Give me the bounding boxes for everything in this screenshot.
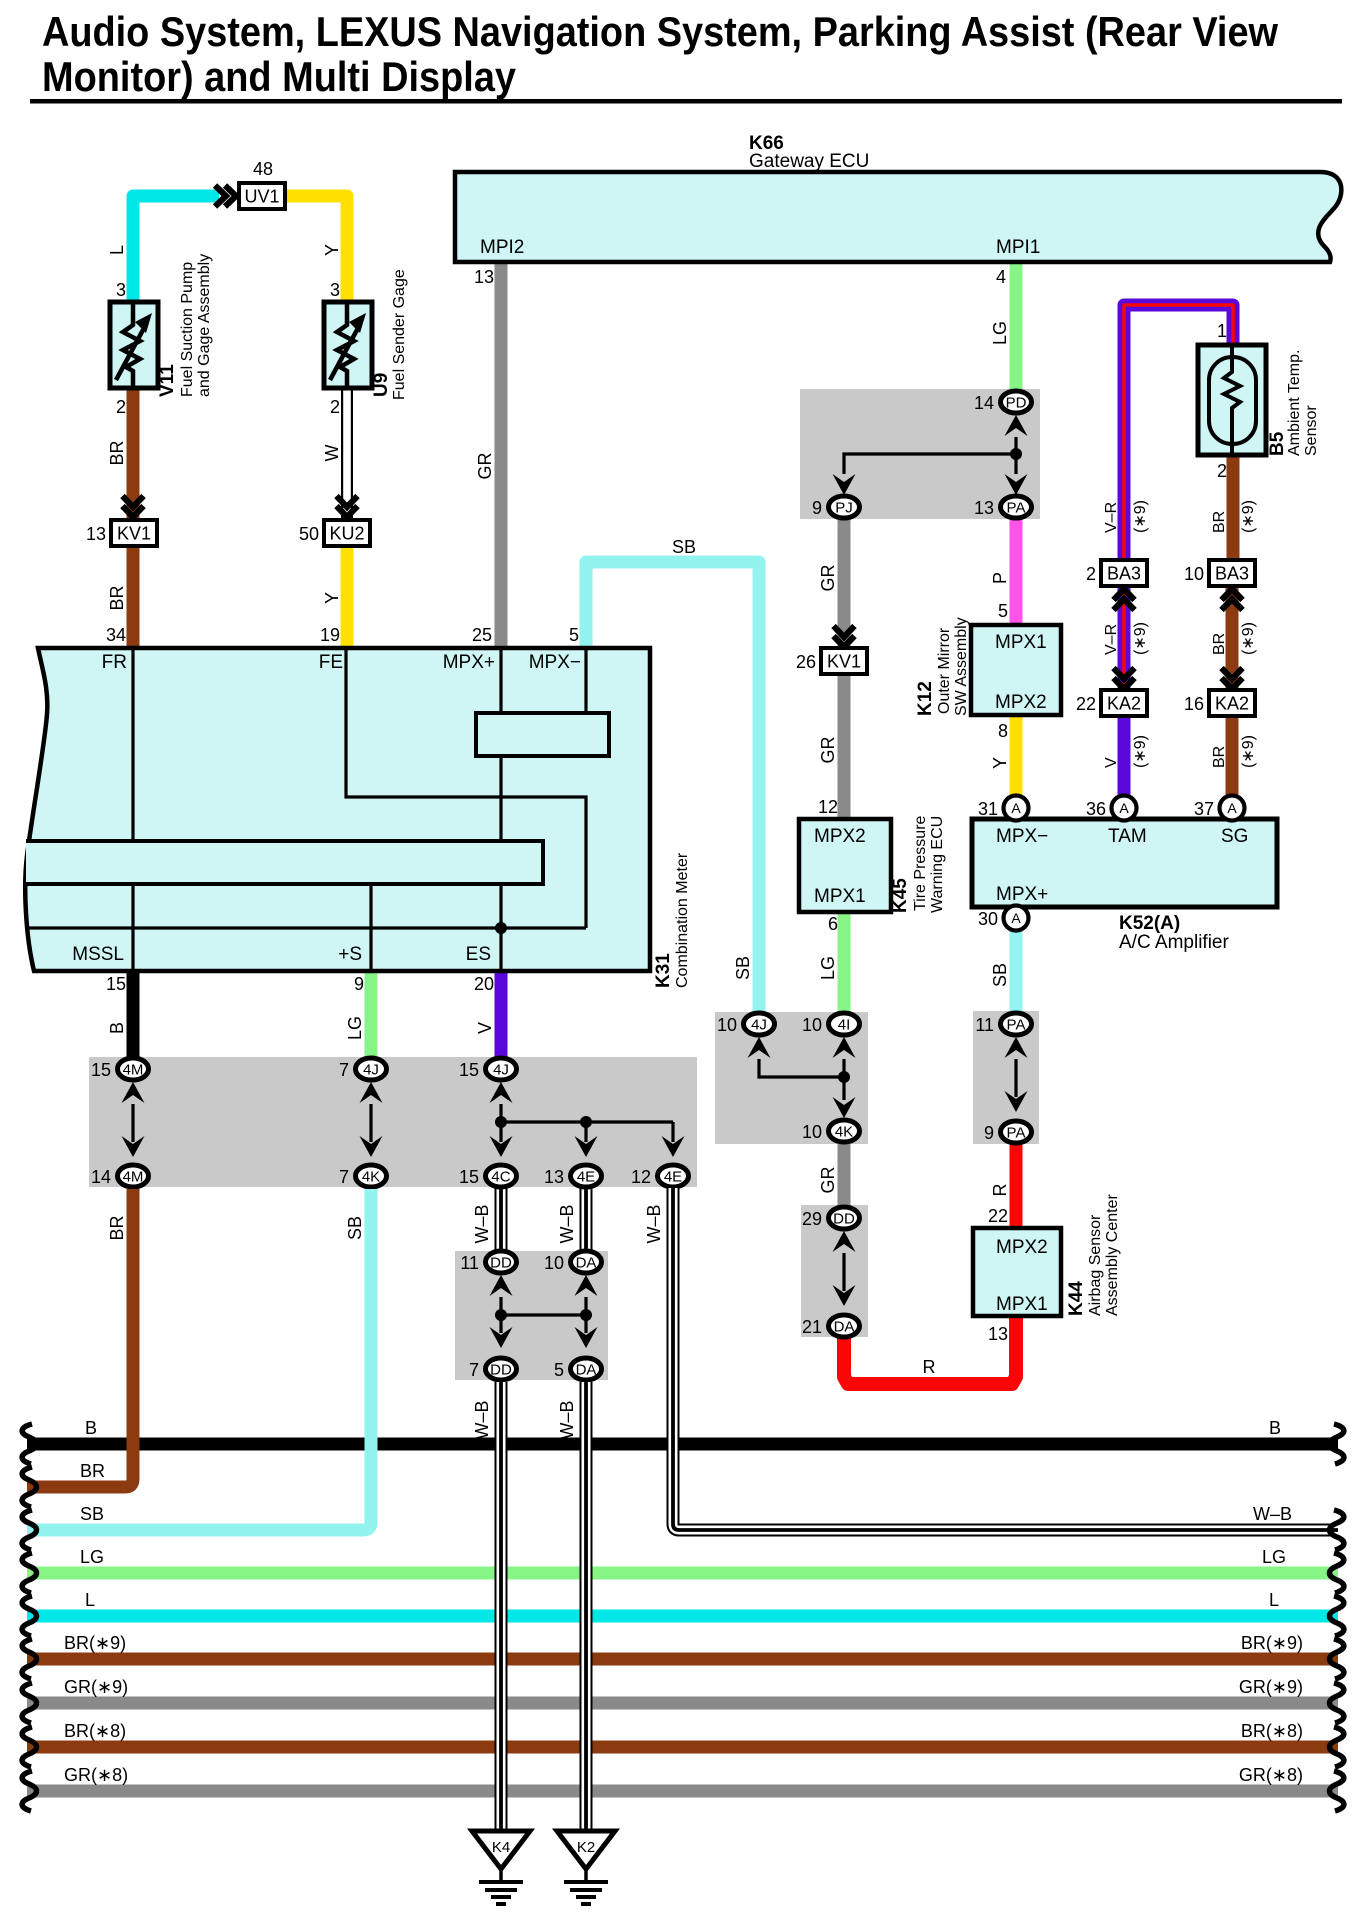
svg-text:Monitor) and Multi Display: Monitor) and Multi Display (42, 53, 517, 100)
connector 4K pin10 (829, 1120, 860, 1142)
svg-text:Tire Pressure: Tire Pressure (912, 815, 929, 911)
wire LG (K66 MPI1-4 to PD-14) (1010, 262, 1023, 391)
connector DD pin29 (829, 1207, 860, 1229)
svg-text:(∗9): (∗9) (1132, 500, 1149, 533)
connector DA pin5 (571, 1358, 602, 1380)
ground K2 (557, 1831, 615, 1869)
svg-text:9: 9 (812, 498, 822, 518)
svg-text:6: 6 (828, 914, 838, 934)
svg-text:4E: 4E (577, 1169, 595, 1186)
svg-text:GR(∗8): GR(∗8) (1239, 1765, 1303, 1785)
arrow into PA-9 (1005, 1091, 1028, 1112)
K31 internal FR-MSSL line (131, 648, 134, 971)
bus break left LG (22, 1553, 36, 1593)
svg-text:SB: SB (990, 963, 1010, 987)
svg-text:(∗9): (∗9) (1240, 622, 1257, 655)
svg-text:10: 10 (1184, 564, 1204, 584)
wire W-B (DA-5 to ground K2) (580, 1382, 593, 1831)
svg-text:4J: 4J (363, 1062, 379, 1079)
svg-text:(∗9): (∗9) (1132, 735, 1149, 768)
svg-text:GR(∗9): GR(∗9) (1239, 1677, 1303, 1697)
connector area 4J/4I/4K right (715, 1012, 868, 1144)
svg-text:15: 15 (459, 1167, 479, 1187)
connector 4J pin10 (744, 1013, 775, 1035)
svg-text:13: 13 (974, 498, 994, 518)
connector A pin31 (1004, 796, 1029, 821)
svg-text:Sensor: Sensor (1303, 405, 1320, 456)
svg-text:10: 10 (802, 1122, 822, 1142)
svg-text:36: 36 (1086, 799, 1106, 819)
svg-text:13: 13 (544, 1167, 564, 1187)
wire W-B (4C-15 to DD-11) (495, 1188, 508, 1251)
connector 4K pin7 (356, 1165, 387, 1187)
svg-text:BR: BR (107, 585, 127, 610)
arrow into 4I-10 (833, 1037, 856, 1058)
svg-text:15: 15 (106, 974, 126, 994)
fuel sender gage U9 (324, 302, 372, 388)
svg-text:GR: GR (818, 564, 838, 591)
svg-text:BR(∗9): BR(∗9) (1241, 1633, 1303, 1653)
connector area DD/DA right (801, 1205, 868, 1337)
arrow into 4E-13 (575, 1136, 598, 1157)
svg-text:20: 20 (474, 974, 494, 994)
bus L (27, 1610, 1338, 1623)
bus GR(*9) (27, 1697, 1338, 1710)
svg-text:SB: SB (345, 1216, 365, 1240)
svg-text:Fuel Suction Pump: Fuel Suction Pump (179, 262, 196, 397)
bus break right GR(*9) (1330, 1683, 1344, 1723)
svg-text:SG: SG (1221, 826, 1248, 847)
svg-text:34: 34 (106, 625, 126, 645)
svg-text:A/C Amplifier: A/C Amplifier (1119, 932, 1229, 953)
wire GR (K66 MPI2-13 to K31 MPX+ 25) (495, 262, 508, 648)
svg-text:4I: 4I (838, 1017, 851, 1034)
bus break right L (1330, 1596, 1344, 1636)
svg-text:BR: BR (1211, 746, 1228, 768)
connector PA pin13 (1001, 496, 1032, 518)
svg-text:P: P (990, 572, 1010, 584)
tire pressure ECU K45 box (799, 819, 891, 912)
svg-text:1: 1 (1217, 321, 1227, 341)
arrow into DA-21 (833, 1285, 856, 1306)
svg-text:22: 22 (1076, 694, 1096, 714)
B5 thermistor capsule (1209, 357, 1256, 444)
svg-text:2: 2 (1217, 461, 1227, 481)
svg-text:29: 29 (802, 1209, 822, 1229)
bus B (27, 1438, 1338, 1451)
svg-text:MPI1: MPI1 (996, 237, 1040, 258)
svg-text:Fuel Sender Gage: Fuel Sender Gage (391, 269, 408, 400)
bus break left SB (22, 1510, 36, 1550)
wire R (K44 MPX1-13 to DA-21) (844, 1316, 1016, 1384)
connector A pin30 (1004, 906, 1029, 931)
svg-text:Outer Mirror: Outer Mirror (936, 627, 953, 714)
svg-text:LG: LG (80, 1547, 104, 1567)
svg-text:K2: K2 (577, 1839, 595, 1856)
arrow into DD-29 (833, 1231, 856, 1252)
svg-text:Assembly Center: Assembly Center (1104, 1194, 1121, 1316)
svg-text:Combination Meter: Combination Meter (674, 852, 691, 988)
outer mirror SW K12 box (971, 625, 1061, 715)
svg-text:PD: PD (1006, 395, 1027, 412)
svg-text:10: 10 (717, 1015, 737, 1035)
svg-text:KU2: KU2 (329, 524, 364, 544)
svg-text:KV1: KV1 (117, 524, 151, 544)
svg-text:PJ: PJ (835, 500, 853, 517)
bus break left L (22, 1596, 36, 1636)
arrow into 4J-7 (360, 1082, 383, 1103)
svg-text:BA3: BA3 (1107, 564, 1141, 584)
svg-text:V–R: V–R (1103, 502, 1120, 533)
bus LG (27, 1567, 1338, 1580)
svg-text:30: 30 (978, 909, 998, 929)
svg-text:SB: SB (80, 1504, 104, 1524)
arrow into 4M-15 (122, 1082, 145, 1103)
gateway ECU K66 box (455, 172, 1341, 262)
junction 4J15/4C (495, 1116, 507, 1128)
svg-text:Airbag Sensor: Airbag Sensor (1087, 1214, 1104, 1316)
svg-text:B: B (107, 1022, 127, 1034)
svg-text:2: 2 (116, 397, 126, 417)
svg-text:GR: GR (475, 452, 495, 479)
arrow into PA-13 (1005, 474, 1028, 495)
svg-text:KA2: KA2 (1215, 694, 1249, 714)
svg-text:PA: PA (1007, 1125, 1026, 1142)
chevron into UV1 (215, 186, 236, 207)
svg-text:14: 14 (974, 393, 994, 413)
svg-text:MPX−: MPX− (529, 652, 581, 673)
connector DA pin10 (571, 1251, 602, 1273)
bus BR(*9) (27, 1653, 1338, 1666)
chevron into KV1-26 (834, 626, 855, 647)
svg-text:9: 9 (984, 1123, 994, 1143)
svg-text:BR: BR (107, 440, 127, 465)
chevron into KA2-22 (1114, 668, 1135, 689)
svg-text:L: L (1269, 1590, 1279, 1610)
svg-text:25: 25 (472, 625, 492, 645)
fuel suction pump V11 (110, 302, 158, 388)
svg-text:BR(∗8): BR(∗8) (1241, 1721, 1303, 1741)
svg-text:DD: DD (833, 1211, 855, 1228)
arrow into DA-5 (575, 1327, 598, 1348)
arrow into 4M-14 (122, 1136, 145, 1157)
combination meter K31 box (25, 648, 650, 971)
svg-text:PA: PA (1007, 500, 1026, 517)
svg-text:+S: +S (338, 944, 362, 965)
svg-text:A: A (1011, 800, 1021, 816)
bus break left BR(*8) (22, 1727, 36, 1767)
svg-text:MPX2: MPX2 (814, 826, 866, 847)
chevron into BA3-2 (1114, 589, 1135, 610)
wire V-R (BA3-2 to KA2-22) (1118, 586, 1131, 690)
connector 4J pin15 (486, 1058, 517, 1080)
wire Y (K12 MPX2-8 to K52 A-31) (1010, 715, 1023, 797)
svg-text:MPI2: MPI2 (480, 237, 524, 258)
svg-text:DA: DA (834, 1319, 855, 1336)
wire GR (PJ-9 to KV1-26) (838, 518, 851, 648)
connector A pin36 (1112, 796, 1137, 821)
svg-text:Gateway ECU: Gateway ECU (749, 151, 869, 172)
connector KU2 pin50 (324, 520, 370, 546)
svg-text:TAM: TAM (1108, 826, 1147, 847)
connector 4J pin7 (356, 1058, 387, 1080)
svg-text:LG: LG (345, 1016, 365, 1040)
svg-text:31: 31 (978, 799, 998, 819)
svg-text:7: 7 (339, 1060, 349, 1080)
svg-text:13: 13 (86, 524, 106, 544)
svg-text:5: 5 (554, 1360, 564, 1380)
connector DD pin11 (486, 1251, 517, 1273)
connector DD pin7 (486, 1358, 517, 1380)
svg-text:ES: ES (466, 944, 491, 965)
connector area PA/PA (973, 1011, 1039, 1144)
svg-text:B: B (85, 1418, 97, 1438)
svg-text:37: 37 (1194, 799, 1214, 819)
svg-text:4K: 4K (362, 1169, 380, 1186)
svg-text:DA: DA (576, 1362, 597, 1379)
wire P (PA-13 to K12 MPX1-5) (1010, 518, 1023, 625)
svg-text:19: 19 (320, 625, 340, 645)
svg-text:KV1: KV1 (827, 652, 861, 672)
svg-text:DD: DD (490, 1255, 512, 1272)
connector area 4M/4J/4K/4C/4E (89, 1057, 697, 1187)
connector KV1 pin13 (111, 520, 157, 546)
svg-text:BR(∗9): BR(∗9) (64, 1633, 126, 1653)
ambient temp sensor B5 box (1198, 345, 1266, 455)
arrow into PJ (833, 474, 856, 495)
svg-text:LG: LG (818, 956, 838, 980)
wire BR (KA2-16 to K52 A-37) (1226, 716, 1239, 797)
svg-text:5: 5 (569, 625, 579, 645)
svg-text:16: 16 (1184, 694, 1204, 714)
svg-text:K52(A): K52(A) (1119, 913, 1180, 934)
K31 internal ES horizontal line (27, 926, 586, 929)
svg-text:LG: LG (1262, 1547, 1286, 1567)
svg-text:MPX1: MPX1 (996, 1294, 1048, 1315)
K31 internal bus bar (26, 841, 543, 884)
svg-text:7: 7 (339, 1167, 349, 1187)
svg-text:V11: V11 (157, 364, 178, 397)
svg-text:13: 13 (474, 267, 494, 287)
svg-text:12: 12 (631, 1167, 651, 1187)
junction (PD/PA) (1010, 448, 1022, 460)
svg-text:SB: SB (672, 537, 696, 557)
wire GR (4K-10 to DD-29) (838, 1144, 851, 1207)
wire LG (K31 +S-9 to 4J-7) (365, 971, 378, 1058)
connector 4E pin13 (571, 1165, 602, 1187)
svg-text:A: A (1227, 800, 1237, 816)
chevron into KV1-13 (123, 496, 144, 517)
svg-text:10: 10 (802, 1015, 822, 1035)
svg-text:21: 21 (802, 1317, 822, 1337)
arrow into 4E-12 (662, 1136, 685, 1157)
svg-text:14: 14 (91, 1167, 111, 1187)
svg-text:A: A (1011, 910, 1021, 926)
svg-text:GR(∗9): GR(∗9) (64, 1677, 128, 1697)
wire BR (V11 pin2 to KV1) (127, 388, 140, 518)
K31 internal MPX- line (584, 648, 587, 713)
svg-text:R: R (990, 1184, 1010, 1197)
chevron into KU2-50 (337, 496, 358, 517)
svg-text:GR: GR (818, 1166, 838, 1193)
wire BR (B5 pin2 to BA3-10) (1227, 455, 1240, 560)
wire V-R (B5 pin1 to BA3-2) (1124, 305, 1233, 560)
svg-text:MPX2: MPX2 (996, 1237, 1048, 1258)
svg-text:U9: U9 (371, 373, 392, 397)
svg-text:LG: LG (990, 321, 1010, 345)
svg-text:Y: Y (322, 592, 342, 604)
svg-text:2: 2 (330, 397, 340, 417)
junction 4E13 (580, 1116, 592, 1128)
svg-text:MPX−: MPX− (996, 826, 1048, 847)
svg-text:MSSL: MSSL (72, 944, 124, 965)
svg-text:MPX+: MPX+ (443, 652, 495, 673)
connector 4C pin15 (486, 1165, 517, 1187)
wire BR (BA3-10 to KA2-16) (1226, 586, 1239, 690)
svg-text:B5: B5 (1267, 431, 1288, 456)
svg-text:V–R: V–R (1103, 624, 1120, 655)
svg-text:MPX1: MPX1 (814, 886, 866, 907)
junction DD (495, 1309, 507, 1321)
svg-text:3: 3 (116, 280, 126, 300)
connector 4M pin14 (118, 1165, 149, 1187)
connector area DD/DA left (455, 1251, 608, 1380)
svg-text:(∗9): (∗9) (1240, 500, 1257, 533)
svg-text:11: 11 (975, 1015, 994, 1035)
svg-text:10: 10 (544, 1253, 564, 1273)
wire SB (K52 A-30 to PA-11) (1010, 930, 1023, 1013)
wire SB (K31 MPX- 5 to 4J-10) (586, 562, 759, 1013)
wire PD-PJ branch (844, 454, 1016, 474)
svg-text:K12: K12 (915, 681, 936, 716)
svg-text:BR: BR (107, 1215, 127, 1240)
svg-text:3: 3 (330, 280, 340, 300)
arrow into PD (1005, 415, 1028, 436)
wire R (PA-9 to K44 MPX2-22) (1010, 1144, 1023, 1228)
svg-text:4M: 4M (123, 1169, 144, 1186)
svg-text:9: 9 (354, 974, 364, 994)
bus break right BR(*9) (1330, 1639, 1344, 1679)
connector 4M pin15 (118, 1058, 149, 1080)
svg-text:GR: GR (818, 736, 838, 763)
connector UV1 (239, 183, 285, 209)
connector PD pin14 (1001, 391, 1032, 413)
wire Y (UV1 to U9 pin3) (285, 196, 347, 303)
bus break left GR(*8) (22, 1771, 36, 1811)
svg-text:R: R (923, 1357, 936, 1377)
svg-text:KA2: KA2 (1107, 694, 1141, 714)
svg-text:4C: 4C (491, 1169, 510, 1186)
bus break right GR(*8) (1330, 1771, 1344, 1811)
svg-text:4K: 4K (835, 1124, 853, 1141)
svg-text:4J: 4J (751, 1017, 767, 1034)
bus break left BR(*9) (22, 1639, 36, 1679)
svg-text:W–B: W–B (472, 1204, 492, 1243)
svg-text:4: 4 (996, 267, 1006, 287)
svg-text:PA: PA (1007, 1017, 1026, 1034)
wire L (V11 pin3 to UV1) (133, 196, 219, 303)
svg-text:V: V (1103, 757, 1120, 768)
svg-text:BR(∗8): BR(∗8) (64, 1721, 126, 1741)
K31 internal small block (476, 713, 609, 756)
wire B (K31 MSSL-15 to 4M-15) (127, 971, 140, 1058)
connector PA pin9 (1001, 1121, 1032, 1143)
wire W-B (4E-13 to DA-10) (580, 1188, 593, 1251)
ground K4 (472, 1831, 530, 1869)
svg-text:26: 26 (796, 652, 816, 672)
svg-text:UV1: UV1 (244, 187, 279, 207)
svg-text:and Gage Assembly: and Gage Assembly (196, 254, 213, 397)
wire W-B (4E-12 to W-B bus) (673, 1188, 1338, 1530)
bus BR(*8) (27, 1741, 1338, 1754)
bus break right BR(*8) (1330, 1727, 1344, 1767)
bus break right LG (1330, 1553, 1344, 1593)
bus break right B (1330, 1424, 1344, 1464)
DD/DA crosslink (501, 1313, 586, 1316)
svg-text:K31: K31 (653, 953, 674, 988)
svg-text:W–B: W–B (557, 1204, 577, 1243)
svg-text:2: 2 (1086, 564, 1096, 584)
svg-text:22: 22 (988, 1206, 1008, 1226)
K31 internal +S line (369, 884, 372, 971)
svg-text:BA3: BA3 (1215, 564, 1249, 584)
svg-text:SB: SB (733, 956, 753, 980)
svg-text:GR(∗8): GR(∗8) (64, 1765, 128, 1785)
svg-text:(∗9): (∗9) (1132, 622, 1149, 655)
svg-text:(∗9): (∗9) (1240, 735, 1257, 768)
wire GR (KV1-26 to K45 MPX2-12) (838, 674, 851, 819)
connector area PD/PJ/PA (800, 389, 1040, 519)
bus break right W-B (1330, 1510, 1344, 1550)
wire V (KA2-22 to K52 A-36) (1118, 716, 1131, 797)
svg-text:K44: K44 (1066, 1281, 1087, 1316)
connector KA2 pin16 (1209, 690, 1255, 716)
svg-text:48: 48 (253, 159, 273, 179)
connector KA2 pin22 (1101, 690, 1147, 716)
svg-text:V: V (475, 1022, 495, 1034)
wire PD-PA segment (1014, 454, 1017, 474)
connector PA pin11 (1001, 1013, 1032, 1035)
junction DA (580, 1309, 592, 1321)
arrow into DD-11 (490, 1275, 513, 1296)
svg-text:Y: Y (322, 244, 342, 256)
wire V (K31 ES-20 to 4J-15) (495, 971, 508, 1058)
svg-text:W–B: W–B (1253, 1504, 1292, 1524)
svg-text:4J: 4J (493, 1062, 509, 1079)
svg-text:FE: FE (319, 652, 343, 673)
svg-text:8: 8 (998, 721, 1008, 741)
wire Y (KU2 to K31 FE pin19) (341, 548, 354, 648)
arrow into 4K-7 (360, 1136, 383, 1157)
arrow into DD-7 (490, 1327, 513, 1348)
connector KV1 pin26 (821, 648, 867, 674)
svg-text:Warning ECU: Warning ECU (929, 816, 946, 913)
wire W (U9 pin2 to KU2) (341, 388, 353, 518)
svg-text:13: 13 (988, 1324, 1008, 1344)
svg-text:K4: K4 (492, 1839, 510, 1856)
bus break left B (22, 1424, 36, 1464)
wire SB (4K-7 to SB bus) (27, 1189, 371, 1530)
bus break left GR(*9) (22, 1683, 36, 1723)
svg-text:W–B: W–B (644, 1204, 664, 1243)
connector PJ pin9 (829, 496, 860, 518)
svg-text:MPX1: MPX1 (995, 632, 1047, 653)
svg-text:BR: BR (1211, 633, 1228, 655)
svg-text:4M: 4M (123, 1062, 144, 1079)
arrow into 4C-15 (490, 1136, 513, 1157)
chevron into KA2-16 (1222, 668, 1243, 689)
svg-text:L: L (85, 1590, 95, 1610)
